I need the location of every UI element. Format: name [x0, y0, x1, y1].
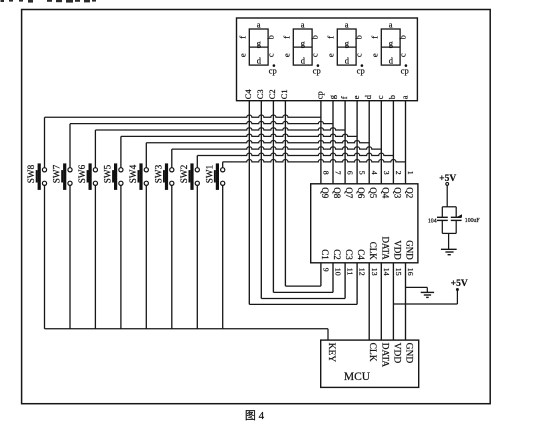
svg-text:d: d [389, 56, 394, 66]
svg-text:b: b [398, 35, 408, 39]
svg-text:a: a [399, 95, 409, 99]
svg-text:g: g [327, 94, 337, 99]
svg-text:SW1: SW1 [204, 164, 214, 183]
svg-text:g: g [257, 38, 262, 48]
svg-text:b: b [387, 95, 397, 99]
svg-text:C3: C3 [344, 249, 354, 260]
svg-text:1: 1 [406, 171, 415, 175]
svg-text:a: a [301, 19, 305, 29]
svg-text:图 4: 图 4 [245, 409, 265, 422]
svg-text:cp: cp [313, 66, 321, 76]
svg-text:g: g [345, 38, 350, 48]
svg-text:16: 16 [406, 268, 415, 276]
svg-text:d: d [301, 56, 306, 66]
svg-text:C1: C1 [279, 89, 289, 99]
svg-text:13: 13 [370, 268, 379, 276]
svg-text:7: 7 [334, 171, 343, 175]
svg-text:4: 4 [370, 171, 379, 175]
svg-text:c: c [398, 53, 408, 57]
svg-text:Q6: Q6 [356, 187, 366, 198]
svg-text:104: 104 [428, 219, 437, 225]
svg-text:GND: GND [405, 240, 415, 260]
svg-text:C2: C2 [267, 89, 277, 99]
svg-text:SW8: SW8 [26, 164, 36, 183]
svg-text:a: a [257, 19, 261, 29]
svg-text:MCU: MCU [344, 371, 371, 383]
svg-text:Q4: Q4 [380, 187, 390, 198]
svg-text:C3: C3 [255, 89, 265, 99]
svg-text:a: a [345, 19, 349, 29]
svg-text:DATA: DATA [380, 237, 390, 261]
svg-text:a: a [389, 19, 393, 29]
svg-text:6: 6 [346, 171, 355, 175]
svg-text:e: e [237, 53, 247, 57]
svg-text:f: f [237, 36, 247, 39]
svg-text:e: e [351, 95, 361, 99]
svg-text:CLK: CLK [368, 242, 378, 261]
svg-text:Q7: Q7 [344, 187, 354, 198]
svg-text:c: c [310, 53, 320, 57]
svg-text:SW6: SW6 [77, 164, 87, 183]
svg-text:c: c [354, 53, 364, 57]
svg-text:f: f [325, 36, 335, 39]
svg-text:f: f [369, 36, 379, 39]
svg-text:GND: GND [404, 343, 414, 364]
svg-text:b: b [266, 35, 276, 39]
svg-text:f: f [339, 96, 349, 99]
svg-text:VDD: VDD [391, 343, 401, 364]
svg-text:g: g [389, 38, 394, 48]
svg-text:e: e [281, 53, 291, 57]
svg-text:cp: cp [315, 91, 325, 99]
svg-text:3: 3 [382, 171, 391, 175]
svg-text:12: 12 [358, 268, 367, 276]
svg-text:C2: C2 [332, 249, 342, 260]
svg-text:C4: C4 [243, 89, 253, 100]
svg-text:15: 15 [394, 268, 403, 276]
svg-text:8: 8 [322, 171, 331, 175]
svg-text:cp: cp [401, 66, 409, 76]
svg-text:g: g [301, 38, 306, 48]
svg-text:11: 11 [346, 268, 355, 276]
svg-text:Q9: Q9 [320, 187, 330, 198]
svg-text:5: 5 [358, 171, 367, 175]
svg-text:DATA: DATA [379, 343, 389, 368]
svg-text:Q5: Q5 [368, 187, 378, 198]
svg-text:b: b [310, 35, 320, 39]
svg-text:100uF: 100uF [465, 218, 481, 224]
svg-text:e: e [325, 53, 335, 57]
svg-text:SW7: SW7 [52, 164, 62, 183]
svg-text:KEY: KEY [326, 343, 336, 363]
svg-text:Q8: Q8 [332, 187, 342, 198]
svg-text:14: 14 [382, 268, 391, 276]
svg-text:Q2: Q2 [405, 187, 415, 198]
svg-text:d: d [345, 56, 350, 66]
svg-text:d: d [257, 56, 262, 66]
svg-text:2: 2 [394, 171, 403, 175]
svg-text:+5V: +5V [451, 279, 468, 289]
svg-text:VDD: VDD [392, 240, 402, 260]
svg-text:C4: C4 [356, 249, 366, 260]
svg-text:9: 9 [322, 268, 331, 272]
svg-text:SW4: SW4 [128, 164, 138, 183]
svg-text:f: f [281, 36, 291, 39]
svg-text:SW5: SW5 [103, 164, 113, 183]
svg-text:c: c [266, 53, 276, 57]
svg-text:SW3: SW3 [153, 164, 163, 183]
svg-text:d: d [363, 94, 373, 99]
svg-text:C1: C1 [320, 249, 330, 260]
svg-text:10: 10 [334, 268, 343, 276]
svg-text:CLK: CLK [367, 343, 377, 362]
svg-text:c: c [375, 95, 385, 99]
svg-text:cp: cp [269, 66, 277, 76]
svg-text:SW2: SW2 [179, 164, 189, 183]
svg-text:Q3: Q3 [392, 187, 402, 198]
svg-text:b: b [354, 35, 364, 39]
svg-text:cp: cp [357, 66, 365, 76]
svg-text:e: e [369, 53, 379, 57]
